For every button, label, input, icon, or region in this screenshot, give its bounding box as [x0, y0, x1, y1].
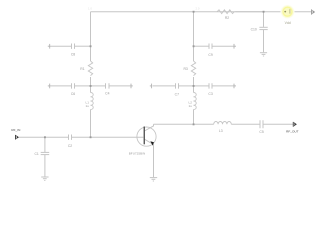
- svg-text:1u: 1u: [86, 104, 90, 108]
- svg-text:1.0: 1.0: [88, 7, 92, 11]
- svg-text:2.0: 2.0: [196, 7, 200, 11]
- svg-text:BFU725B/N: BFU725B/N: [129, 151, 146, 155]
- svg-text:R1: R1: [80, 67, 84, 71]
- svg-text:RF_IN: RF_IN: [11, 128, 20, 132]
- svg-text:C3: C3: [208, 92, 212, 96]
- svg-text:R2: R2: [225, 16, 229, 20]
- svg-text:C1: C1: [34, 152, 38, 156]
- svg-text:R3: R3: [183, 67, 187, 71]
- svg-text:RF_OUT: RF_OUT: [286, 130, 298, 134]
- svg-text:C2: C2: [68, 144, 72, 148]
- svg-text:L3: L3: [219, 129, 223, 133]
- svg-text:C10: C10: [251, 28, 257, 32]
- svg-text:1u: 1u: [189, 104, 193, 108]
- svg-text:C5: C5: [259, 130, 263, 134]
- svg-text:C6: C6: [71, 92, 75, 96]
- svg-text:C8: C8: [71, 52, 75, 56]
- svg-text:C9: C9: [208, 53, 212, 57]
- svg-text:C7: C7: [175, 93, 179, 97]
- svg-text:C4: C4: [105, 92, 109, 96]
- svg-text:Vdd: Vdd: [285, 21, 291, 25]
